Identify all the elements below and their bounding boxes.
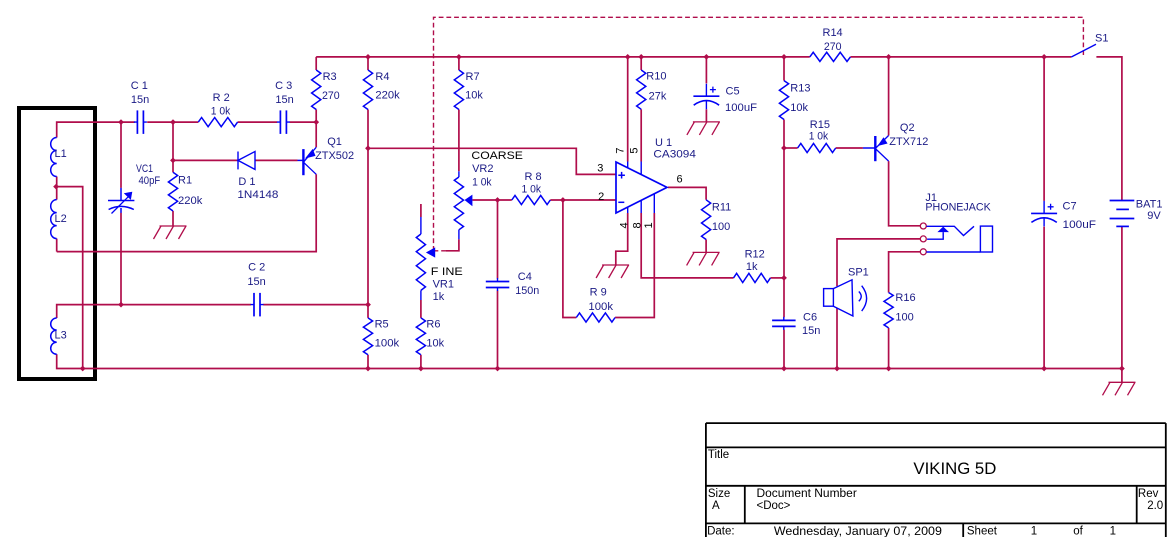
node C junction	[313, 119, 319, 125]
resistor R3	[312, 70, 321, 110]
svg-text:R3: R3	[323, 71, 337, 83]
svg-text:C4: C4	[518, 271, 532, 283]
wire rail to R10	[640, 57, 642, 70]
svg-text:D 1: D 1	[238, 176, 255, 188]
svg-text:1 0k: 1 0k	[522, 184, 542, 196]
wire VR1 to R6	[420, 300, 422, 318]
svg-text:2: 2	[598, 191, 604, 203]
wire coil tap down to ground rail	[56, 187, 83, 369]
resistor R7	[454, 70, 463, 110]
wire node B down to VC1	[120, 122, 122, 188]
wire R15 to Q2 base	[836, 147, 863, 149]
svg-text:4: 4	[618, 222, 630, 228]
svg-text:10k: 10k	[426, 337, 444, 349]
wire SP1 to rail	[836, 308, 838, 369]
resistor R8	[512, 195, 551, 204]
node B1 junction	[118, 119, 124, 125]
svg-text:Date:: Date:	[707, 526, 735, 537]
svg-text:VR1: VR1	[433, 279, 454, 291]
wire Q2 collector to J1 tip	[889, 161, 921, 226]
wire R9 to U1 pin 1	[615, 213, 654, 318]
speaker SP1	[824, 280, 867, 316]
resistor R6	[416, 318, 425, 355]
svg-text:F INE: F INE	[431, 266, 463, 278]
wire L3 top to C2	[57, 305, 251, 318]
wire top rail R14 to S1	[850, 56, 1071, 58]
wire rail to C5	[705, 57, 707, 84]
svg-text:of: of	[1073, 526, 1083, 537]
wire rail to C7	[1043, 57, 1045, 201]
wire VR2 wiper to R8	[472, 199, 511, 201]
svg-text:R 2: R 2	[213, 92, 230, 104]
wire C2 to R5 node	[263, 304, 368, 306]
svg-text:100: 100	[895, 311, 913, 323]
rail junction Q2	[886, 54, 892, 60]
wire rail to Q2 emitter	[888, 57, 890, 136]
wire rail to R3	[315, 57, 317, 70]
wire bottom ground rail	[57, 354, 1122, 368]
svg-text:7: 7	[615, 147, 627, 153]
resistor R1	[168, 172, 177, 211]
svg-text:100uF: 100uF	[1063, 219, 1097, 231]
rail junction R4	[365, 54, 371, 60]
wire R10 to U1 pin 5	[640, 109, 642, 161]
wire rail to R13	[783, 57, 785, 81]
node F junction	[781, 145, 787, 151]
svg-text:C6: C6	[803, 311, 817, 323]
ground rail junction C7	[1041, 366, 1047, 372]
svg-text:100: 100	[712, 221, 730, 233]
variable capacitor VC1	[108, 188, 134, 214]
resistor R4	[363, 70, 372, 110]
svg-text:R5: R5	[375, 319, 389, 331]
svg-text:COARSE: COARSE	[471, 150, 523, 162]
ground rail junction tap	[80, 366, 86, 372]
svg-text:<Doc>: <Doc>	[757, 500, 791, 512]
svg-text:3: 3	[597, 163, 603, 175]
svg-text:C7: C7	[1063, 200, 1077, 212]
svg-text:L1: L1	[55, 148, 67, 160]
wire top supply rail left section	[316, 56, 810, 58]
svg-text:6: 6	[677, 174, 683, 186]
svg-text:A: A	[712, 500, 720, 512]
op-amp U1 CA3094	[616, 162, 667, 214]
wire R12 to node E	[770, 277, 784, 279]
wire R2 to C3	[238, 121, 278, 123]
svg-text:15n: 15n	[275, 94, 293, 106]
node R8-pin2 junction	[560, 197, 566, 203]
potentiometer VR2 COARSE	[454, 171, 472, 239]
ground under U1 pin 4	[596, 265, 629, 278]
potentiometer VR1 FINE	[416, 217, 435, 300]
wire U1 pin 8 to R12	[641, 213, 733, 278]
svg-text:1 0k: 1 0k	[211, 105, 231, 117]
coupling frame around L1 L2 L3	[19, 108, 95, 379]
wire Q1 collector to L2 bottom	[57, 174, 317, 251]
svg-text:R 9: R 9	[590, 287, 607, 299]
resistor R15	[798, 143, 836, 152]
ground under BAT1	[1103, 382, 1136, 395]
svg-text:ZTX502: ZTX502	[315, 150, 354, 162]
svg-text:R7: R7	[466, 71, 480, 83]
rail junction R7	[456, 54, 462, 60]
ground rail junction BAT1	[1119, 366, 1125, 372]
ground rail junction R16	[886, 366, 892, 372]
dashed annotation path from VR1 wiper to S1	[434, 17, 1084, 251]
ground rail junction R5	[365, 366, 371, 372]
svg-text:U 1: U 1	[655, 137, 672, 149]
wire R8 to U1 pin 2	[550, 199, 615, 201]
rail junction pin7	[625, 54, 631, 60]
battery BAT1	[1110, 201, 1135, 227]
wire S1 to BAT1	[1096, 57, 1122, 201]
svg-text:27k: 27k	[649, 90, 667, 102]
capacitor C2	[251, 293, 264, 317]
svg-text:150n: 150n	[515, 285, 539, 297]
svg-text:1: 1	[1031, 526, 1037, 537]
svg-text:270: 270	[824, 41, 842, 53]
svg-text:10k: 10k	[790, 102, 808, 114]
node D junction	[118, 302, 124, 308]
rail junction R13	[781, 54, 787, 60]
capacitor C4	[486, 278, 510, 291]
svg-text:R1: R1	[178, 174, 192, 186]
wire L2 bottom lead	[56, 239, 58, 252]
svg-text:PHONEJACK: PHONEJACK	[925, 201, 991, 213]
node E junction	[781, 275, 787, 281]
svg-text:R 8: R 8	[525, 171, 542, 183]
svg-text:CA3094: CA3094	[653, 148, 696, 160]
wire to U1 pin 3	[368, 148, 616, 174]
resistor R5	[363, 318, 372, 355]
svg-text:C 2: C 2	[248, 262, 265, 274]
node VR2 wiper junction	[495, 197, 501, 203]
ground under R11	[687, 252, 720, 265]
resistor R10	[637, 70, 646, 109]
wire node to C4	[497, 200, 499, 279]
wire rail to R7	[458, 57, 460, 70]
svg-text:270: 270	[322, 90, 340, 102]
svg-text:1 0k: 1 0k	[472, 176, 492, 188]
svg-text:C 1: C 1	[131, 80, 148, 92]
svg-text:R14: R14	[823, 27, 843, 39]
svg-text:1k: 1k	[746, 261, 758, 273]
wire VR2 bottom to VR1 wiper	[446, 239, 459, 251]
wire U1 pin 4 to ground	[616, 213, 628, 265]
resistor R16	[884, 293, 893, 328]
wire R16 to rail	[888, 328, 890, 369]
svg-text:R12: R12	[745, 249, 765, 261]
diode D1 1N4148	[238, 152, 255, 170]
svg-text:C5: C5	[726, 85, 740, 97]
svg-text:220k: 220k	[178, 195, 203, 207]
rail junction C7	[1041, 54, 1047, 60]
svg-text:C 3: C 3	[275, 80, 292, 92]
wire L1 top to C1	[57, 122, 135, 137]
svg-text:40pF: 40pF	[139, 175, 161, 187]
node B2 junction	[170, 119, 176, 125]
wire rail to R4	[367, 57, 369, 70]
ground under R1	[154, 226, 187, 239]
capacitor C6	[772, 317, 796, 330]
wire L1-L2 junction	[56, 177, 58, 200]
wire R3 to Q1 emitter	[315, 110, 317, 148]
resistor R11	[702, 200, 711, 240]
svg-text:220k: 220k	[375, 90, 400, 102]
svg-text:R10: R10	[646, 70, 666, 82]
svg-text:L3: L3	[55, 330, 67, 342]
wire rail to U1 pin 7	[627, 57, 629, 162]
svg-text:15n: 15n	[131, 94, 149, 106]
transistor Q2 ZTX712	[863, 136, 889, 162]
wire C1 to R2 through node B	[147, 121, 198, 123]
svg-text:BAT1: BAT1	[1136, 199, 1163, 211]
resistor R14	[810, 52, 851, 61]
svg-text:5: 5	[628, 147, 640, 153]
svg-text:R4: R4	[375, 71, 389, 83]
capacitor C7	[1031, 201, 1057, 227]
wire node to D1 anode side	[173, 159, 238, 161]
svg-text:S1: S1	[1095, 32, 1108, 44]
svg-text:8: 8	[631, 222, 643, 228]
capacitor C3	[277, 110, 290, 133]
wire C3 to node C	[290, 121, 317, 123]
title block frame	[706, 423, 1166, 537]
svg-text:R11: R11	[712, 201, 731, 213]
svg-text:100k: 100k	[588, 301, 613, 313]
wire pin2 node down to R9	[563, 200, 576, 318]
wire C7 to rail	[1043, 227, 1045, 369]
svg-text:R6: R6	[426, 319, 440, 331]
svg-text:VC1: VC1	[136, 163, 153, 175]
node R5 top junction	[365, 302, 371, 308]
capacitor C1	[134, 110, 147, 133]
svg-text:Q1: Q1	[327, 136, 342, 148]
node L1-L2 tap junction	[53, 184, 59, 190]
wire R13 to node F	[783, 120, 785, 149]
wire node E to C6	[783, 278, 785, 317]
resistor R13	[779, 81, 788, 120]
wire node B to R1 and D1	[172, 122, 174, 172]
wire R11 to ground	[705, 240, 707, 253]
wire R5 to rail	[367, 355, 369, 369]
wire R4 lead down to R5	[367, 110, 369, 318]
wire C6 to rail	[783, 330, 785, 369]
svg-text:9V: 9V	[1147, 210, 1161, 222]
svg-text:1 0k: 1 0k	[809, 130, 829, 142]
resistor R2	[198, 118, 237, 127]
capacitor C5	[693, 84, 719, 110]
svg-text:Title: Title	[708, 449, 729, 461]
ground rail junction R6	[418, 366, 424, 372]
resistor R9	[576, 313, 615, 322]
wire VR1 top stub	[420, 204, 422, 217]
wire R6 to rail	[420, 355, 422, 369]
svg-text:Q2: Q2	[900, 122, 915, 134]
wire R1 to ground	[172, 211, 174, 226]
svg-text:VR2: VR2	[472, 163, 493, 175]
ground rail junction C4	[495, 366, 501, 372]
node R1-D1 junction	[170, 158, 176, 164]
svg-text:SP1: SP1	[848, 267, 869, 279]
svg-text:R15: R15	[810, 119, 830, 131]
svg-text:R16: R16	[895, 292, 915, 304]
rail junction C5	[704, 54, 710, 60]
resistor R12	[734, 273, 771, 282]
wire C5 to ground	[705, 109, 707, 122]
svg-text:1: 1	[1110, 526, 1116, 537]
svg-text:100uF: 100uF	[725, 102, 757, 114]
svg-text:Rev: Rev	[1138, 488, 1159, 500]
wire node F down to node E	[783, 148, 785, 278]
inductor L3	[51, 318, 57, 354]
wire D1 to Q1 base	[255, 159, 298, 161]
wire VC1 to node D	[120, 213, 122, 305]
svg-text:15n: 15n	[247, 276, 265, 288]
ground rail junction C6	[781, 366, 787, 372]
svg-text:ZTX712: ZTX712	[889, 136, 928, 148]
svg-text:1N4148: 1N4148	[237, 189, 278, 201]
inductor L2	[51, 200, 57, 239]
svg-text:1: 1	[643, 222, 655, 228]
svg-text:R13: R13	[790, 83, 810, 95]
wire BAT1 to rail	[1121, 226, 1123, 368]
svg-text:100k: 100k	[375, 337, 400, 349]
node pin3 wire junction	[365, 145, 371, 151]
svg-text:2.0: 2.0	[1147, 500, 1163, 512]
wire J1 ring to SP1	[837, 239, 920, 286]
dashed wire stub at VR1 wiper	[434, 250, 447, 252]
svg-text:VIKING 5D: VIKING 5D	[913, 460, 996, 478]
svg-text:Sheet: Sheet	[967, 526, 998, 537]
svg-text:Wednesday, January 07, 2009: Wednesday, January 07, 2009	[774, 524, 942, 537]
wire C4 to rail	[497, 291, 499, 369]
svg-text:1k: 1k	[433, 291, 445, 303]
wire U1 output pin 6 to R11	[668, 187, 706, 199]
transistor Q1 ZTX502	[298, 147, 317, 175]
inductor L1	[51, 138, 57, 177]
wire rail to ground stub	[1121, 369, 1123, 383]
switch S1	[1071, 44, 1096, 57]
wire J1 sleeve to R16	[889, 252, 921, 293]
svg-text:L2: L2	[55, 213, 67, 225]
wire R7 to VR2	[458, 110, 460, 172]
svg-text:Size: Size	[708, 488, 730, 500]
svg-text:15n: 15n	[802, 325, 820, 337]
wire node F to R15	[784, 147, 798, 149]
ground rail junction SP1	[834, 366, 840, 372]
svg-text:Document Number: Document Number	[757, 488, 857, 500]
ground under C5	[687, 122, 720, 135]
rail junction R10	[638, 54, 644, 60]
phone jack J1	[920, 223, 926, 255]
svg-text:10k: 10k	[465, 89, 483, 101]
